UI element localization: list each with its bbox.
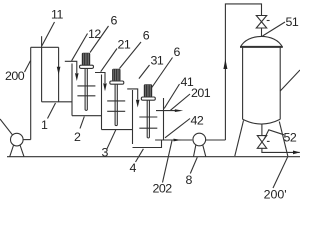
label 202 <box>153 182 173 196</box>
vessel 5 right leg <box>279 122 288 157</box>
tank 3 bottom <box>102 129 133 131</box>
svg-text:202: 202 <box>153 182 173 196</box>
agitator blades tank 4 <box>139 116 157 118</box>
motor M4 flange <box>141 97 155 100</box>
riser flow arrow <box>223 59 227 69</box>
tank 4 inlet arrow <box>136 100 140 108</box>
agitator blades tank 3 <box>107 100 125 102</box>
svg-text:6: 6 <box>111 14 118 28</box>
motor M3 flange <box>110 81 124 84</box>
vessel 5 bottom outlet pipe <box>261 148 263 152</box>
label 42 <box>191 114 204 128</box>
valve 51 <box>256 16 266 29</box>
svg-text:51: 51 <box>286 15 299 29</box>
agitator blades tank 2 <box>77 85 95 87</box>
vessel 5 dished bottom <box>243 119 281 124</box>
product outlet arrow 200' <box>293 151 300 155</box>
tank 2 outlet pipe to tank 3 <box>95 73 105 84</box>
tank 3 inlet arrow <box>103 83 107 91</box>
label 2 <box>74 130 81 144</box>
svg-text:200': 200' <box>264 187 287 200</box>
pump P8 discharge pipe <box>205 139 225 141</box>
svg-text:52: 52 <box>284 131 297 145</box>
label 6 (motor M2) <box>111 14 118 28</box>
svg-text:21: 21 <box>118 38 131 52</box>
vessel 5 side pipe <box>280 70 300 91</box>
label 51 <box>286 15 299 29</box>
vessel 1 bottom edge / transfer line to tank 2 <box>42 101 72 103</box>
label 21 <box>118 38 131 52</box>
motor M3 <box>112 69 120 81</box>
label 200' <box>264 187 287 201</box>
vapour outlet arrow <box>175 109 183 112</box>
pump P1 discharge pipe <box>23 139 31 141</box>
label 31 <box>151 54 164 68</box>
motor M2 <box>82 53 90 65</box>
svg-text:201: 201 <box>191 86 211 100</box>
label 6 (motor M4) <box>174 45 181 59</box>
tank 2 bottom <box>72 115 102 117</box>
tank 3 outlet pipe to tank 4 <box>127 89 138 100</box>
label 12 <box>88 27 101 41</box>
pump P8 <box>193 133 206 146</box>
label 3 <box>102 146 109 160</box>
vessel 1 top edge <box>31 46 59 48</box>
svg-text:31: 31 <box>151 54 164 68</box>
agitator shaft tank 4 <box>147 100 149 138</box>
svg-text:4: 4 <box>130 161 137 175</box>
vessel 5 left wall <box>242 47 244 119</box>
vessel 5 flange <box>240 46 283 48</box>
svg-text:6: 6 <box>143 29 150 43</box>
vessel 5 left leg <box>235 121 244 157</box>
label 200 <box>5 69 25 83</box>
label 8 <box>186 173 193 187</box>
vessel 1 inlet stub 11 <box>41 36 43 47</box>
svg-text:8: 8 <box>186 173 193 187</box>
tank 2 inlet arrow <box>75 73 79 81</box>
riser pipe to vessel 5 <box>225 4 261 140</box>
valve 52 <box>257 136 266 149</box>
label 11 <box>51 8 63 22</box>
label 1 <box>41 118 48 132</box>
label 41 <box>181 75 194 89</box>
pump P1 <box>10 133 23 146</box>
vessel 5 right wall <box>279 47 281 119</box>
vessel 1 left wall <box>41 47 43 102</box>
feed riser pipe 200 <box>30 47 32 139</box>
svg-text:1: 1 <box>41 118 48 132</box>
dip tube / pump 8 suction pipe 202 <box>155 139 192 141</box>
pump P1 suction pipe <box>0 119 12 135</box>
motor M4 <box>144 84 152 97</box>
label 4 <box>130 161 137 175</box>
svg-text:6: 6 <box>174 45 181 59</box>
label 52 <box>284 131 297 145</box>
agitator shaft tank 2 <box>85 68 87 110</box>
valve 52 stem <box>261 124 263 136</box>
svg-text:2: 2 <box>74 130 81 144</box>
tank 4 right wall <box>163 98 165 140</box>
svg-text:11: 11 <box>51 8 63 22</box>
label 6 (motor M3) <box>143 29 150 43</box>
shared wall tank2/tank3 <box>101 75 103 130</box>
ground baseline <box>7 156 300 158</box>
motor M2 flange <box>80 65 94 68</box>
tank 2 left wall <box>71 64 73 116</box>
svg-text:42: 42 <box>191 114 204 128</box>
vessel 1 flow arrow <box>57 67 61 75</box>
tank 4 vapour outlet pipe 201 <box>156 110 175 112</box>
shared wall tank3/tank4 <box>132 90 134 144</box>
tank 2 inlet pipe <box>65 61 77 73</box>
vessel 1 right wall <box>58 47 60 102</box>
svg-text:200: 200 <box>5 69 25 83</box>
agitator shaft tank 3 <box>115 84 117 126</box>
suction flow arrow <box>174 139 182 142</box>
tank 4 bottom <box>133 140 162 148</box>
vessel 5 dome <box>240 36 282 47</box>
label 201 <box>191 86 211 100</box>
